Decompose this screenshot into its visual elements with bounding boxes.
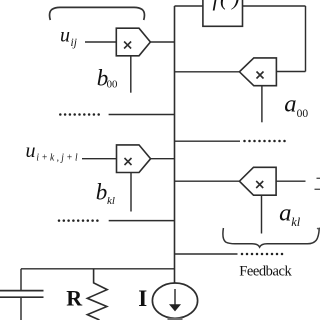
underbrace feedback (223, 228, 319, 248)
multiplier A1 (a00) (239, 58, 276, 86)
svg-text:I: I (138, 286, 147, 311)
svg-text:R: R (66, 286, 83, 311)
svg-text:u: u (26, 140, 36, 162)
wire bus to A2 (175, 180, 240, 182)
multiplier B1 (b00) (116, 28, 150, 56)
multiplier A2 (akl) (239, 167, 276, 195)
left dotted row 2 solid part (109, 220, 175, 222)
current source arrow shaft (174, 289, 176, 305)
svg-text:kl: kl (291, 215, 301, 229)
right dotted row solid part (175, 140, 241, 142)
svg-text:ij: ij (71, 37, 77, 49)
wire u_ij to multiplier B1 (85, 41, 116, 43)
wire f() to right rail (243, 5, 306, 7)
multiplier B2 (bkl) (117, 145, 151, 173)
wire B2 output to bus (151, 158, 175, 160)
current source circle (152, 283, 197, 318)
svg-text:(: ( (220, 0, 229, 10)
capacitor feed top (20, 269, 22, 291)
wire row2 to multiplier B2 (82, 158, 117, 160)
multiply sign B1 (124, 42, 131, 49)
capacitor feed bottom (20, 297, 22, 320)
svg-text:a: a (284, 92, 296, 118)
current source arrow head (169, 304, 181, 311)
wire A2 to right edge (276, 180, 305, 182)
multiply sign A1 (257, 72, 264, 79)
f() box (203, 0, 243, 26)
capacitor plate bottom (0, 296, 44, 298)
right edge cropped mark 3 (317, 228, 320, 229)
feedback row solid wire (175, 253, 238, 255)
right edge cropped mark 2 (315, 188, 320, 190)
right dotted row 1 dots (243, 140, 286, 143)
left dotted row 1 dots (59, 113, 100, 116)
wire right rail to A1 (276, 71, 305, 73)
svg-text:i + k , j + l: i + k , j + l (36, 153, 77, 164)
svg-text:Feedback: Feedback (239, 264, 292, 280)
wire B1 output to bus (150, 41, 174, 43)
svg-text:b: b (96, 180, 108, 205)
weight stub bkl (130, 173, 132, 212)
main bus vertical (174, 6, 176, 283)
weight stub a00 (261, 86, 263, 123)
svg-text:): ) (230, 0, 239, 10)
multiply sign B2 (125, 158, 132, 165)
right rail down (305, 6, 307, 72)
svg-text:u: u (60, 24, 70, 46)
left dotted row 2 dots (58, 219, 99, 222)
resistor R zigzag (87, 269, 107, 320)
weight stub b00 (130, 56, 132, 93)
bottom wire (21, 268, 175, 270)
svg-text:kl: kl (107, 195, 115, 207)
feedback dotted row dots (241, 253, 284, 256)
capacitor plate top (0, 290, 44, 292)
right edge cropped mark 1 (317, 177, 320, 179)
svg-text:00: 00 (107, 78, 118, 90)
multiply sign A2 (256, 181, 263, 188)
top wire bus to f() box (175, 5, 203, 7)
svg-text:00: 00 (297, 108, 309, 120)
wire A1 output to bus (175, 71, 240, 73)
brace over inputs (50, 7, 145, 20)
current source bottom stub (168, 318, 183, 320)
left dotted row 1 solid part (109, 114, 175, 116)
svg-text:a: a (279, 200, 291, 226)
weight stub akl (261, 195, 263, 233)
